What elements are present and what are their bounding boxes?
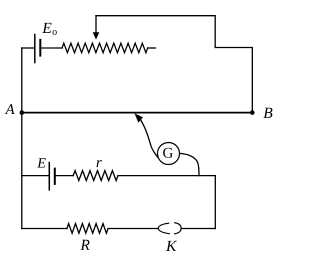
- wire potentiometer A-B: [22, 112, 253, 114]
- battery E short plate: [54, 169, 56, 184]
- battery E long plate: [48, 163, 50, 190]
- wire lower loop top: rail to battery E: [22, 175, 50, 177]
- key K right contact arc: [175, 223, 182, 234]
- jockey arrowhead on wire AB: [135, 113, 144, 122]
- key K left contact arc: [158, 223, 169, 234]
- resistor r zigzag: [73, 171, 118, 181]
- wire resistor r to right side: [118, 175, 215, 177]
- label E0 subscript o: [53, 30, 57, 35]
- wire battery E0 left lead: [22, 47, 35, 49]
- rheostat (potential divider) zigzag: [62, 43, 148, 53]
- node B junction dot: [250, 110, 255, 115]
- label resistor r: [97, 160, 102, 167]
- wire rheostat tap to top loop: [95, 16, 97, 33]
- wire left rail: [21, 48, 23, 229]
- label key K: [166, 241, 177, 251]
- wire lower loop bottom right: key to corner: [181, 228, 215, 230]
- galvanometer G letter: [163, 148, 173, 158]
- resistor R zigzag: [67, 224, 108, 234]
- node A junction dot: [20, 110, 25, 115]
- wire jockey lead to galvanometer: [141, 121, 159, 159]
- label node B: [263, 108, 272, 118]
- wire rheostat right stub: [148, 47, 156, 49]
- wire resistor R to left corner: [22, 228, 67, 230]
- wire battery E to resistor r: [55, 175, 73, 177]
- galvanometer G circle: [158, 143, 180, 165]
- label E0 letter E: [42, 23, 51, 33]
- battery E0 short plate: [39, 40, 41, 56]
- arrowhead of rheostat tap: [93, 32, 100, 39]
- wire battery E0 to rheostat: [40, 47, 62, 49]
- wire top loop to B: [96, 16, 252, 113]
- battery E0 long plate: [34, 35, 36, 63]
- wire galvanometer to lower loop: [180, 153, 199, 175]
- label battery E: [37, 158, 46, 167]
- label node A: [5, 104, 15, 114]
- wire lower loop right side: [214, 176, 216, 229]
- label resistor R: [80, 240, 89, 250]
- wire key to resistor R: [108, 228, 158, 230]
